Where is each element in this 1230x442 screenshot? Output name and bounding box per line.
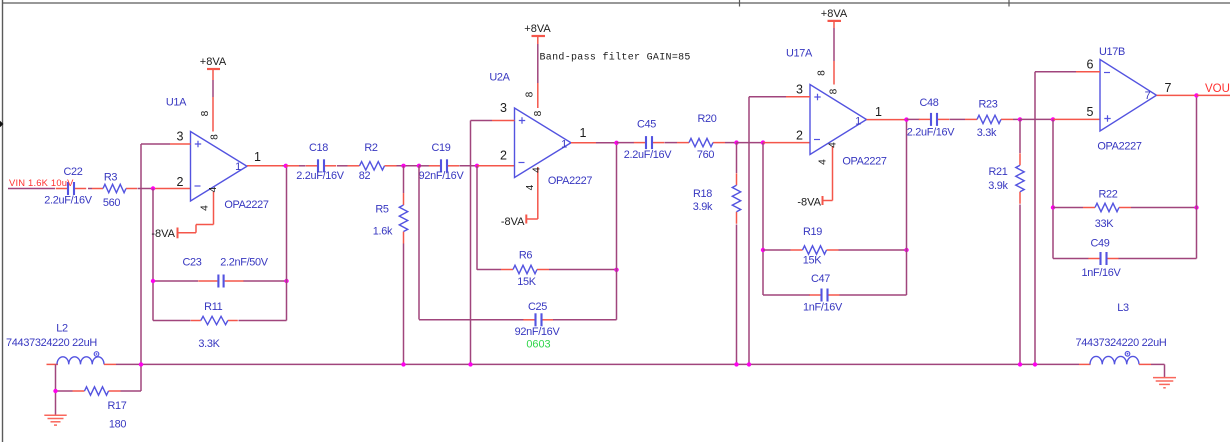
svg-text:R11: R11 — [204, 301, 223, 313]
svg-text:1: 1 — [875, 105, 882, 119]
svg-text:R19: R19 — [803, 226, 822, 238]
svg-text:4: 4 — [200, 205, 211, 211]
svg-text:2.2uF/16V: 2.2uF/16V — [624, 149, 673, 161]
svg-text:OPA2227: OPA2227 — [224, 199, 269, 211]
svg-text:-8VA: -8VA — [797, 196, 821, 208]
svg-text:8: 8 — [210, 134, 221, 140]
svg-text:R2: R2 — [364, 142, 378, 154]
svg-text:2.2nF/50V: 2.2nF/50V — [220, 257, 269, 269]
svg-text:2: 2 — [177, 175, 184, 189]
svg-text:74437324220 22uH: 74437324220 22uH — [6, 337, 97, 349]
svg-text:3: 3 — [500, 101, 507, 115]
svg-text:7: 7 — [1145, 90, 1151, 102]
svg-text:R21: R21 — [988, 166, 1007, 178]
svg-text:U17B: U17B — [1099, 46, 1125, 58]
svg-text:1: 1 — [855, 116, 861, 128]
svg-text:1: 1 — [561, 138, 567, 150]
svg-text:U2A: U2A — [489, 72, 510, 84]
svg-text:+8VA: +8VA — [821, 8, 848, 20]
svg-text:8: 8 — [829, 88, 840, 94]
svg-text:-8VA: -8VA — [151, 228, 175, 240]
svg-text:3.9k: 3.9k — [988, 180, 1008, 192]
svg-text:4: 4 — [818, 159, 829, 165]
svg-text:C19: C19 — [431, 142, 450, 154]
svg-text:VOUT: VOUT — [1205, 83, 1230, 95]
svg-text:2.2uF/16V: 2.2uF/16V — [44, 195, 93, 207]
svg-text:92nF/16V: 92nF/16V — [419, 170, 465, 182]
svg-text:C47: C47 — [811, 273, 830, 285]
svg-text:-8VA: -8VA — [501, 216, 525, 228]
svg-text:3.9k: 3.9k — [693, 201, 713, 213]
svg-text:+8VA: +8VA — [524, 23, 551, 35]
svg-text:OPA2227: OPA2227 — [1097, 140, 1142, 152]
svg-text:Band-pass filter GAIN=85: Band-pass filter GAIN=85 — [540, 51, 691, 63]
svg-text:2: 2 — [796, 128, 803, 142]
svg-text:3.3k: 3.3k — [977, 127, 997, 139]
svg-text:C25: C25 — [528, 301, 547, 313]
svg-text:4: 4 — [525, 184, 536, 190]
svg-text:3.3K: 3.3K — [198, 338, 220, 350]
svg-text:7: 7 — [1165, 81, 1172, 95]
svg-text:4: 4 — [532, 167, 543, 173]
svg-text:R6: R6 — [519, 249, 533, 261]
svg-text:C49: C49 — [1090, 237, 1109, 249]
svg-text:1nF/16V: 1nF/16V — [803, 301, 843, 313]
svg-text:5: 5 — [1087, 105, 1094, 119]
svg-text:560: 560 — [103, 197, 121, 209]
svg-text:C22: C22 — [63, 166, 82, 178]
svg-text:R23: R23 — [978, 98, 997, 110]
svg-text:R3: R3 — [104, 172, 118, 184]
svg-text:C23: C23 — [182, 256, 201, 268]
svg-text:R5: R5 — [375, 204, 389, 216]
svg-text:+8VA: +8VA — [200, 56, 227, 68]
svg-text:C48: C48 — [919, 97, 938, 109]
svg-text:1: 1 — [254, 150, 261, 164]
svg-text:4: 4 — [828, 142, 839, 148]
svg-text:33K: 33K — [1095, 218, 1115, 230]
svg-text:6: 6 — [1087, 58, 1094, 72]
svg-text:2.2uF/16V: 2.2uF/16V — [296, 170, 345, 182]
svg-text:1nF/16V: 1nF/16V — [1081, 267, 1121, 279]
svg-text:15K: 15K — [803, 254, 823, 266]
svg-text:8: 8 — [200, 110, 211, 116]
svg-text:VIN 1.6K 10uV: VIN 1.6K 10uV — [9, 177, 74, 188]
svg-text:3: 3 — [177, 130, 184, 144]
svg-text:L2: L2 — [56, 323, 68, 335]
svg-text:R20: R20 — [697, 113, 716, 125]
svg-text:0603: 0603 — [526, 338, 550, 350]
svg-text:8: 8 — [533, 110, 544, 116]
svg-text:2.2uF/16V: 2.2uF/16V — [907, 126, 956, 138]
svg-text:R22: R22 — [1098, 188, 1117, 200]
svg-text:1.6k: 1.6k — [373, 226, 393, 238]
svg-text:R17: R17 — [107, 400, 126, 412]
svg-text:OPA2227: OPA2227 — [548, 175, 593, 187]
svg-text:82: 82 — [359, 170, 371, 182]
svg-text:1: 1 — [580, 126, 587, 140]
svg-text:R18: R18 — [693, 188, 712, 200]
svg-text:U1A: U1A — [166, 97, 187, 109]
svg-text:74437324220 22uH: 74437324220 22uH — [1076, 337, 1167, 349]
svg-text:15K: 15K — [517, 276, 537, 288]
svg-text:8: 8 — [525, 91, 536, 97]
svg-text:2: 2 — [500, 149, 507, 163]
svg-text:C18: C18 — [309, 142, 328, 154]
svg-text:1: 1 — [235, 161, 241, 173]
svg-text:92nF/16V: 92nF/16V — [515, 326, 561, 338]
svg-text:C45: C45 — [637, 118, 656, 130]
svg-text:760: 760 — [697, 149, 715, 161]
svg-text:8: 8 — [817, 70, 828, 76]
svg-text:L3: L3 — [1117, 302, 1129, 314]
svg-text:4: 4 — [208, 186, 219, 192]
svg-text:OPA2227: OPA2227 — [842, 155, 887, 167]
svg-text:180: 180 — [109, 418, 127, 430]
svg-text:U17A: U17A — [786, 47, 813, 59]
svg-text:3: 3 — [796, 82, 803, 96]
